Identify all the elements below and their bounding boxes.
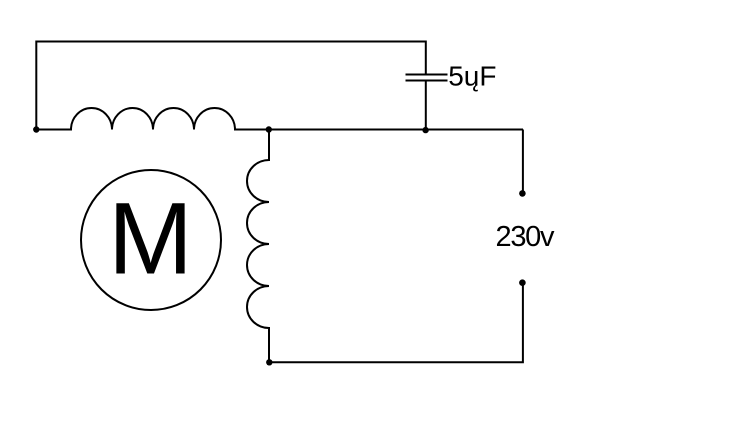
svg-text:M: M xyxy=(108,181,193,295)
svg-text:230v: 230v xyxy=(496,221,555,253)
svg-text:5ųF: 5ųF xyxy=(448,60,496,91)
